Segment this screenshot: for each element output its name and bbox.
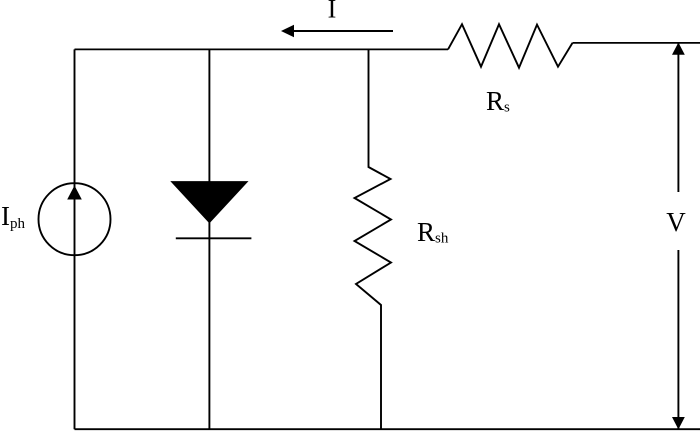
svg-text:Iph: Iph bbox=[1, 201, 26, 232]
svg-text:Rs: Rs bbox=[486, 86, 510, 116]
wire: top-right horizontal to output bbox=[573, 42, 700, 44]
wire: diode branch vertical bbox=[208, 49, 210, 429]
current source I_ph bbox=[39, 183, 111, 255]
diode D1 bbox=[172, 182, 251, 238]
svg-text:I: I bbox=[328, 0, 337, 24]
voltage arrow V (double headed) bbox=[672, 43, 685, 430]
wire: top-left horizontal bus bbox=[75, 48, 449, 50]
svg-text:Rsh: Rsh bbox=[417, 217, 449, 247]
resistor R_s bbox=[448, 24, 573, 67]
wire: left vertical branch bbox=[74, 49, 76, 429]
wire: bottom horizontal bus bbox=[75, 428, 700, 430]
current arrow I bbox=[281, 25, 393, 37]
resistor R_sh bbox=[355, 49, 392, 429]
svg-text:V: V bbox=[666, 207, 686, 237]
